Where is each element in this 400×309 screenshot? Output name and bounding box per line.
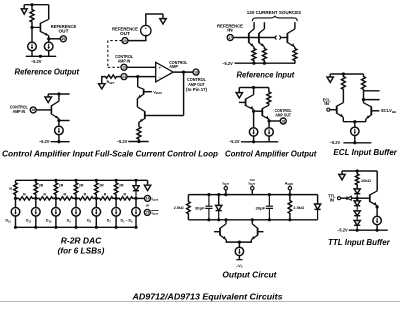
current source I2 (Control Amplifier Output) bbox=[265, 128, 273, 136]
caption TTL Input Buffer bbox=[328, 238, 391, 247]
caption Reference Input bbox=[237, 71, 295, 80]
svg-text:AMP IN: AMP IN bbox=[118, 58, 131, 63]
wire source to ground bbox=[146, 14, 163, 25]
svg-text:24: 24 bbox=[122, 75, 126, 79]
wire to pin 20 bbox=[49, 38, 61, 40]
svg-text:19: 19 bbox=[31, 108, 35, 112]
caption R-2R DAC bbox=[61, 237, 102, 246]
resistor 2.5k (AGND) bbox=[288, 195, 304, 222]
diode D1 (TTL chain top) bbox=[354, 189, 360, 198]
label CONTROL AMP OUT (to Pin 17) bbox=[186, 77, 208, 92]
label 130 CURRENT SOURCES bbox=[247, 10, 302, 15]
wire cascode middle bbox=[136, 98, 138, 107]
ground (R-2R DAC) bbox=[144, 180, 150, 190]
label or bbox=[146, 204, 150, 208]
ground (RSET) bbox=[99, 84, 105, 89]
pin 19 (loop) bbox=[121, 64, 127, 70]
resistor RSET bbox=[105, 75, 122, 78]
wire feedback bbox=[147, 72, 183, 115]
resistor 10k (TTL) bbox=[355, 171, 371, 189]
wire emitter node down bbox=[252, 110, 255, 128]
svg-text:2R: 2R bbox=[99, 184, 104, 188]
wire top rail (Control Amplifier Output) bbox=[239, 86, 268, 89]
wire top rail (R-2R DAC) bbox=[16, 179, 148, 182]
svg-text:14: 14 bbox=[146, 197, 150, 201]
svg-text:–VS: –VS bbox=[236, 264, 243, 269]
label ECL IN bbox=[323, 97, 331, 105]
label CONTROL AMP OUT bbox=[275, 108, 292, 117]
wire emitter left down bbox=[342, 117, 344, 122]
wire bottom rail -5.2V (Control Amplifier Output) bbox=[241, 136, 278, 143]
diode D2 (TTL chain) bbox=[354, 198, 360, 211]
wire bottom rail -5.2V (ECL) bbox=[343, 136, 371, 145]
svg-text:10kΩ: 10kΩ bbox=[361, 179, 371, 183]
label TTL IN bbox=[328, 193, 336, 202]
svg-text:130 CURRENT SOURCES: 130 CURRENT SOURCES bbox=[247, 10, 302, 15]
resistor R (ladder series 2) bbox=[36, 192, 56, 200]
resistor 2R (ladder leg 5) bbox=[95, 180, 105, 198]
label -5.2V bbox=[39, 139, 50, 144]
svg-text:17: 17 bbox=[228, 36, 232, 40]
wire emitter out bbox=[268, 119, 281, 127]
svg-text:–5.2V: –5.2V bbox=[222, 61, 233, 66]
svg-text:R: R bbox=[23, 192, 26, 196]
transistor Q1 (TTL) bbox=[357, 171, 377, 206]
wire bottom rail (R-2R DAC) bbox=[14, 226, 138, 229]
label -5.2V (Reference Input) bbox=[222, 61, 233, 66]
label REFERENCE OUT bbox=[112, 27, 138, 37]
wire dashed external connection bbox=[108, 41, 122, 68]
svg-text:18: 18 bbox=[194, 70, 198, 74]
wire emitter to current source bbox=[48, 36, 50, 43]
caption AD9712/AD9713 Equivalent Circuits bbox=[131, 291, 282, 301]
transistor Q1 (Control Amplifier Output) bbox=[239, 88, 254, 110]
wire emitter node bbox=[57, 119, 69, 127]
transistor Q3 (Reference Input) bbox=[287, 22, 295, 47]
svg-text:30pF: 30pF bbox=[256, 206, 266, 210]
caption Control Amplifier Output bbox=[225, 150, 317, 159]
diode (ladder end) bbox=[133, 180, 139, 198]
ground (Reference Output) bbox=[21, 5, 27, 14]
current source (ECL tail) bbox=[351, 122, 359, 136]
transistor Q2 (loop) bbox=[137, 107, 147, 122]
brace (current sources) bbox=[252, 16, 297, 21]
pin 18 CONTROL AMP OUT bbox=[193, 69, 199, 75]
svg-text:IOUT: IOUT bbox=[223, 182, 230, 187]
caption Reference Output bbox=[15, 67, 80, 76]
label -5.2V bbox=[31, 59, 42, 64]
svg-text:TTL Input Buffer: TTL Input Buffer bbox=[328, 238, 391, 247]
resistor (Reference Input leg 1) bbox=[252, 47, 256, 63]
current source D12 (ladder) bbox=[5, 198, 19, 227]
resistor 2R (ladder leg 3) bbox=[54, 180, 64, 198]
svg-text:AMP OUT: AMP OUT bbox=[275, 112, 291, 117]
label CONTROL AMP bbox=[169, 60, 187, 69]
svg-text:AMP: AMP bbox=[169, 64, 178, 69]
current source I1 (Control Amplifier Output) bbox=[249, 128, 257, 136]
svg-text:–: – bbox=[145, 32, 147, 36]
pin 24 (loop) bbox=[121, 74, 127, 80]
label -5.2V (TTL) bbox=[337, 228, 348, 233]
svg-text:20: 20 bbox=[61, 37, 65, 41]
pin 20 REFERENCE OUT (loop) bbox=[122, 38, 128, 44]
current source (TTL) bbox=[373, 216, 381, 224]
pin 15 IOUT-bar bbox=[144, 209, 150, 215]
wire top rail (Reference Output) bbox=[24, 4, 49, 6]
svg-text:–5.2V: –5.2V bbox=[229, 139, 240, 144]
transistor Q1 cascode (VBIAS) bbox=[137, 87, 152, 99]
label RSET bbox=[107, 80, 115, 85]
svg-text:2.5kΩ: 2.5kΩ bbox=[293, 206, 304, 210]
resistor R (ladder series 3) bbox=[56, 192, 76, 200]
wire bottom rail -5.2V (Control Amplifier Input) bbox=[51, 135, 70, 144]
nodes middle rail junctions bbox=[14, 197, 138, 200]
transistor Q2 (Control Amplifier Output) bbox=[254, 105, 270, 119]
svg-text:R: R bbox=[9, 187, 12, 191]
terminal IOUT-bar bbox=[249, 180, 256, 195]
resistor (Reference Input leg 3) bbox=[293, 47, 297, 63]
svg-text:2R: 2R bbox=[119, 184, 124, 188]
svg-text:ECLVBB: ECLVBB bbox=[381, 108, 396, 114]
label REFERENCE IN bbox=[217, 24, 243, 33]
transistor Q2 (ECL right) bbox=[364, 100, 380, 119]
wire break symbol bbox=[275, 36, 281, 40]
transistor Q2 (Reference Input) bbox=[259, 22, 265, 47]
ground (Control Amplifier Output) bbox=[236, 88, 242, 99]
svg-text:–5.2V: –5.2V bbox=[330, 140, 341, 145]
svg-text:2R: 2R bbox=[39, 184, 44, 188]
svg-text:15: 15 bbox=[145, 211, 149, 215]
svg-text:Full-Scale Current Control Loo: Full-Scale Current Control Loop bbox=[95, 150, 218, 159]
voltage source (reference) bbox=[141, 25, 151, 36]
ground (TTL Input Buffer) bbox=[339, 171, 345, 180]
resistor R (ladder series 1) bbox=[16, 192, 36, 200]
pin 20 REFERENCE OUT bbox=[60, 36, 66, 42]
diode (IOUT clamp) bbox=[216, 193, 222, 221]
node emitter output junction bbox=[47, 37, 50, 40]
wire base bus bbox=[233, 37, 287, 39]
current source D10 (ladder) bbox=[46, 198, 60, 227]
svg-text:R: R bbox=[84, 192, 87, 196]
wire output stub lower bbox=[362, 98, 380, 101]
transistor Q1 (Control Amplifier Input) bbox=[51, 94, 59, 119]
resistor (ECL right load) bbox=[362, 74, 366, 100]
label ECLVBB bbox=[381, 108, 396, 114]
wire top rail (Control Amplifier Input) bbox=[48, 92, 69, 95]
svg-text:IN: IN bbox=[227, 28, 233, 33]
node TTL input junction bbox=[356, 197, 359, 200]
wire top rail (TTL Input Buffer) bbox=[342, 169, 377, 172]
svg-text:2R: 2R bbox=[59, 184, 64, 188]
svg-text:–: – bbox=[159, 75, 161, 79]
transistor Q2 (output pair right) bbox=[239, 218, 263, 242]
wire base bbox=[36, 109, 51, 111]
wire ladder output bbox=[136, 197, 145, 199]
diode (AGND clamp) bbox=[315, 195, 321, 220]
capacitor 30pF (IOUT-bar) bbox=[256, 193, 274, 221]
svg-text:–5.2V: –5.2V bbox=[39, 139, 50, 144]
current source I2 (Reference Output) bbox=[44, 42, 53, 51]
resistor (Control Amplifier Output) bbox=[267, 88, 271, 106]
wire bottom rail -5.2V (Reference Output) bbox=[26, 51, 56, 58]
resistor (loop emitter) bbox=[137, 126, 141, 141]
resistor (Reference Input leg 2) bbox=[262, 47, 266, 63]
ground (ECL Input Buffer) bbox=[327, 74, 333, 82]
label -5.2V (ECL) bbox=[330, 140, 341, 145]
resistor 2.5k (IOUT load) bbox=[174, 195, 190, 220]
svg-text:–5.2V: –5.2V bbox=[337, 228, 348, 233]
label -VS bbox=[236, 264, 243, 269]
svg-text:AMP IN: AMP IN bbox=[13, 109, 26, 114]
resistor 2R (ladder leg 6) bbox=[114, 180, 124, 198]
caption (for 6 LSBs) bbox=[58, 247, 105, 256]
svg-text:Reference Output: Reference Output bbox=[15, 67, 80, 76]
wire bottom rail -5.2V (Reference Input) bbox=[235, 62, 296, 65]
resistor R (ladder series 5) bbox=[96, 192, 116, 200]
caption ECL Input Buffer bbox=[333, 148, 397, 157]
svg-text:(to Pin 17): (to Pin 17) bbox=[186, 87, 208, 92]
transistor Q1 (Reference Output) bbox=[32, 5, 49, 36]
label REFERENCE OUT bbox=[51, 24, 76, 34]
wire top rail (ECL Input Buffer) bbox=[330, 72, 363, 75]
svg-text:AGND: AGND bbox=[285, 182, 294, 187]
diode D3 (TTL chain) bbox=[354, 211, 360, 221]
caption Control Amplifier Input bbox=[2, 150, 93, 159]
resistor (Reference Output bias) bbox=[30, 5, 34, 28]
terminal ECL IN bbox=[327, 108, 337, 111]
wire op-amp output bbox=[173, 71, 193, 74]
wire emitter to current source (TTL) bbox=[376, 205, 379, 216]
svg-text:Control Amplifier Input: Control Amplifier Input bbox=[2, 150, 93, 159]
wire left branch down bbox=[31, 27, 33, 42]
svg-text:18: 18 bbox=[281, 119, 285, 123]
svg-text:OUT: OUT bbox=[120, 31, 130, 36]
svg-text:2R: 2R bbox=[79, 184, 84, 188]
svg-text:R: R bbox=[124, 192, 127, 196]
wire common emitter bbox=[343, 119, 366, 123]
label VBIAS bbox=[153, 90, 162, 95]
resistor R (ladder series 4) bbox=[76, 192, 96, 200]
diode (TTL input, horizontal) bbox=[347, 196, 357, 200]
svg-text:OUT: OUT bbox=[59, 29, 69, 34]
ground (source) bbox=[160, 14, 166, 24]
svg-text:R: R bbox=[63, 192, 66, 196]
resistor (ECL left load) bbox=[341, 74, 345, 103]
transistor Q1 (Reference Input) bbox=[249, 22, 254, 47]
caption Output Circut bbox=[222, 270, 276, 279]
current source I1 (Reference Output) bbox=[28, 42, 37, 51]
node resistor top junction bbox=[30, 3, 33, 6]
wire source to pin 20 bbox=[128, 36, 146, 41]
pin 18 CONTROL AMP OUT (output) bbox=[280, 118, 286, 124]
node base junction bbox=[30, 26, 33, 29]
op-amp U1 CONTROL AMP bbox=[156, 62, 174, 82]
diode D4 (TTL chain) bbox=[354, 221, 360, 231]
terminal TTL IN bbox=[338, 197, 347, 200]
wire output stub upper bbox=[364, 90, 380, 92]
svg-text:R-2R DAC: R-2R DAC bbox=[61, 237, 102, 246]
label CONTROL AMP IN bbox=[10, 104, 28, 114]
svg-text:–5.2V: –5.2V bbox=[31, 59, 42, 64]
transistor Q1 (ECL left) bbox=[337, 103, 344, 118]
label CONTROL AMP IN (loop) bbox=[115, 54, 133, 64]
resistor R (ladder leg 1) bbox=[9, 180, 17, 198]
svg-text:AD9712/AD9713 Equivalent Circu: AD9712/AD9713 Equivalent Circuits bbox=[131, 291, 282, 301]
wire bottom rail -5.2V (loop) bbox=[128, 140, 148, 143]
svg-text:–5.2V: –5.2V bbox=[117, 139, 128, 144]
svg-text:30pF: 30pF bbox=[195, 206, 205, 210]
pin 14 IOUT bbox=[145, 195, 151, 201]
resistor 2R (ladder leg 2) bbox=[34, 180, 44, 198]
wire bottom rail -5.2V (TTL) bbox=[349, 225, 388, 232]
svg-text:Reference Input: Reference Input bbox=[237, 71, 295, 80]
wire pin19 to op-amp bbox=[127, 66, 156, 68]
svg-text:19: 19 bbox=[122, 66, 126, 70]
label -5.2V (Control Amplifier Output) bbox=[229, 139, 240, 144]
wire pin24 to op-amp bbox=[127, 75, 156, 78]
caption Full-Scale Current Control Loop bbox=[95, 150, 218, 159]
label IOUT-bar bbox=[151, 210, 158, 215]
svg-text:IN: IN bbox=[324, 101, 329, 106]
svg-text:Output Circut: Output Circut bbox=[222, 270, 276, 279]
wire RSET to ground bbox=[102, 77, 105, 84]
svg-text:2.5kΩ: 2.5kΩ bbox=[174, 206, 184, 210]
capacitor 30pF (IOUT) bbox=[195, 193, 213, 221]
current source D1-D6 (ladder) bbox=[120, 198, 140, 227]
svg-text:20: 20 bbox=[123, 39, 127, 43]
resistor 2R (ladder leg 4) bbox=[74, 180, 84, 198]
current source D8 (ladder) bbox=[87, 198, 101, 227]
svg-text:ECL Input Buffer: ECL Input Buffer bbox=[333, 148, 397, 157]
resistor R (ladder series 6) bbox=[116, 192, 136, 200]
pin 17 REFERENCE IN bbox=[227, 35, 233, 41]
svg-text:IOUT: IOUT bbox=[249, 182, 256, 187]
wire top rail (Output Circuit) bbox=[188, 194, 317, 196]
transistor Q1 (output pair left) bbox=[214, 218, 239, 242]
current source (output tail) bbox=[235, 241, 243, 260]
wire node 24 down bbox=[137, 77, 139, 87]
separator line bbox=[0, 301, 400, 303]
terminal AGND bbox=[285, 182, 294, 197]
terminal IOUT bbox=[223, 182, 230, 197]
label -5.2V (loop) bbox=[117, 139, 128, 144]
wire bottom rail (Output Circuit) bbox=[188, 219, 317, 221]
svg-text:(for 6 LSBs): (for 6 LSBs) bbox=[58, 247, 105, 256]
svg-text:Control Amplifier Output: Control Amplifier Output bbox=[225, 150, 317, 159]
wire emitter to resistor bbox=[138, 122, 140, 126]
svg-text:R: R bbox=[104, 192, 107, 196]
current source (Control Amplifier Input) bbox=[55, 126, 64, 135]
current source D11 (ladder) bbox=[26, 198, 40, 227]
svg-text:R: R bbox=[43, 192, 46, 196]
label IOUT bbox=[152, 197, 159, 202]
current source D7 (ladder) bbox=[107, 198, 121, 227]
ground (Control Amplifier Input) bbox=[45, 94, 52, 103]
pin 19 CONTROL AMP IN bbox=[30, 107, 36, 113]
svg-text:IN: IN bbox=[330, 198, 334, 203]
current source D9 (ladder) bbox=[67, 198, 81, 227]
svg-text:+: + bbox=[145, 27, 147, 31]
